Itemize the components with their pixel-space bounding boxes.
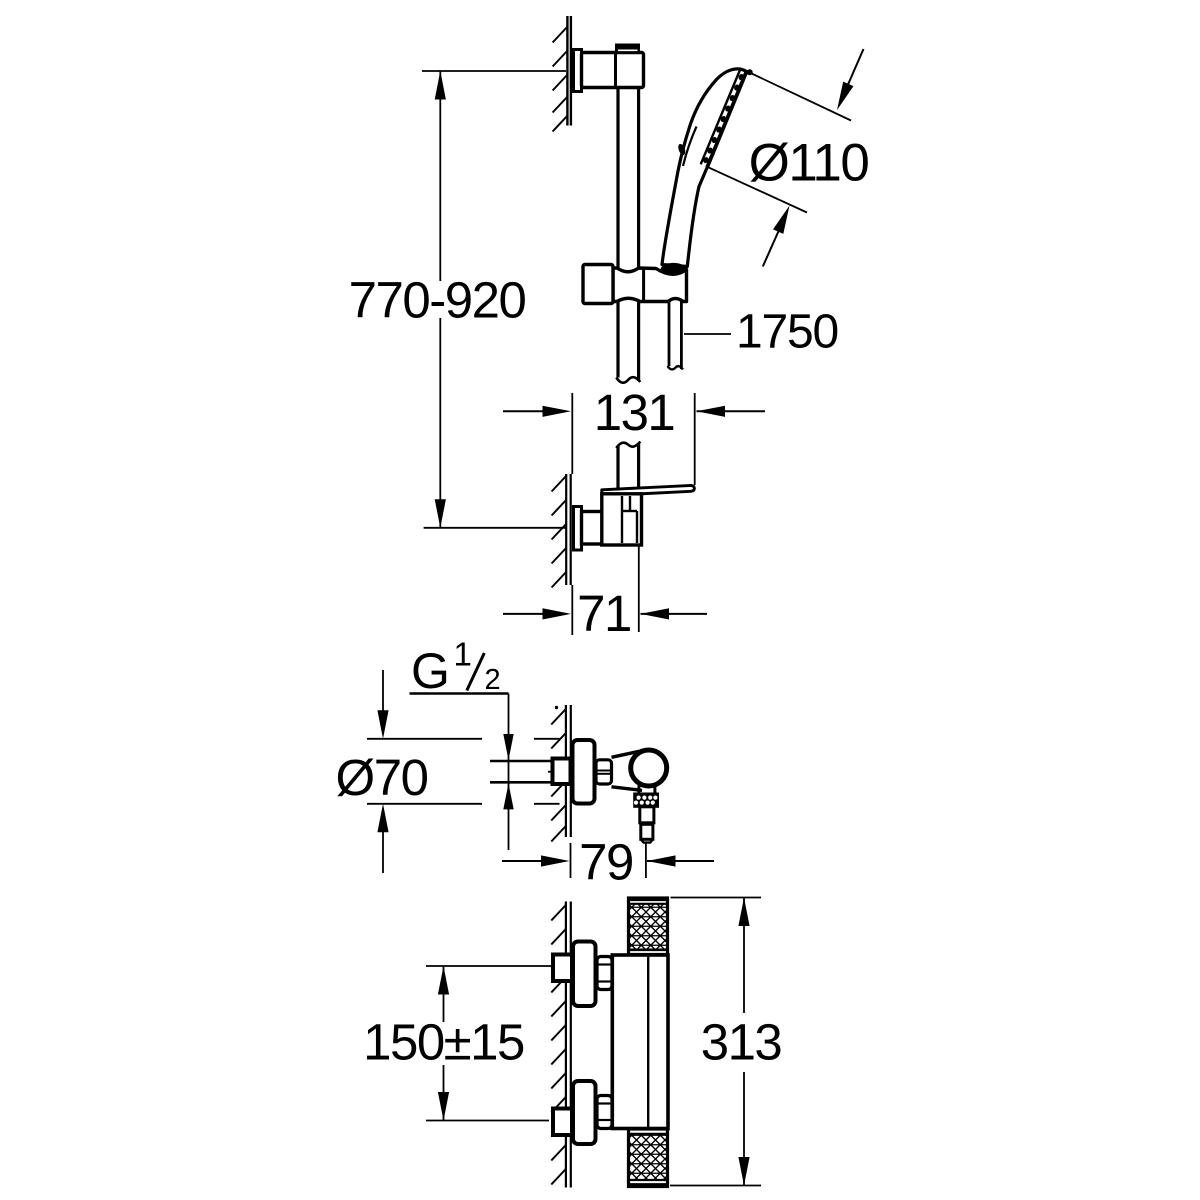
side sliver line of shower head xyxy=(683,127,697,167)
elbow ball xyxy=(631,750,667,786)
svg-text:770-920: 770-920 xyxy=(349,272,526,329)
rail foot bracket xyxy=(582,512,602,545)
label G 1/2 with leader xyxy=(410,636,514,851)
lower union nut xyxy=(597,1096,612,1129)
rail end cap xyxy=(615,44,640,54)
dimension extension line for Ø110 (lower) xyxy=(707,167,807,213)
upper square wall nut xyxy=(553,955,572,982)
hose nipple xyxy=(640,807,654,843)
mode button on shower head xyxy=(677,143,687,156)
elbow arm xyxy=(612,751,643,791)
shower holder body on rail xyxy=(613,268,687,302)
svg-text:Ø70: Ø70 xyxy=(336,749,428,806)
square thread nut at wall xyxy=(553,759,571,785)
dimension 150±15 xyxy=(363,966,552,1121)
svg-text:150±15: 150±15 xyxy=(363,1014,524,1071)
holder locking knob xyxy=(583,265,613,304)
thermostat body xyxy=(612,955,668,1129)
svg-text:71: 71 xyxy=(577,585,631,642)
union nut (middle) xyxy=(596,760,612,784)
dimension extension line for Ø110 (upper) xyxy=(751,73,852,121)
supply pipe G1/2 xyxy=(490,761,562,782)
shower hose xyxy=(668,302,683,370)
dimension 313 xyxy=(670,898,781,1186)
rail foot shelf arm xyxy=(602,485,695,495)
svg-text:G: G xyxy=(411,643,450,699)
lower knob (knurled) xyxy=(629,1129,668,1187)
svg-text:2: 2 xyxy=(485,664,501,696)
spray face (edge view) xyxy=(707,72,746,168)
hand shower head and handle xyxy=(662,69,753,267)
wall plate of rail foot xyxy=(574,507,582,551)
dimension Ø70 xyxy=(336,670,560,873)
upper escutcheon xyxy=(573,942,596,1007)
dimension 71 xyxy=(503,546,707,642)
svg-text:313: 313 xyxy=(701,1014,782,1071)
svg-text:1750: 1750 xyxy=(736,306,838,359)
Ø110 arrow upper xyxy=(837,49,864,110)
lower square wall nut xyxy=(553,1109,572,1136)
svg-text:Ø110: Ø110 xyxy=(749,134,869,193)
wall (middle drawing) xyxy=(551,705,571,842)
rail foot body xyxy=(602,494,642,545)
dimension 770-920 xyxy=(349,71,566,528)
svg-text:1: 1 xyxy=(454,636,472,673)
handle end in holder (dark) xyxy=(661,263,687,276)
shower rail (lower segment) xyxy=(616,442,640,490)
shower rail (upper segment) xyxy=(616,88,640,383)
Ø110 arrow lower xyxy=(763,206,790,267)
top rail bracket xyxy=(582,53,644,88)
svg-text:131: 131 xyxy=(594,384,675,441)
upper knob (knurled) xyxy=(629,898,668,955)
upper union nut xyxy=(597,957,612,990)
leader line 1750 xyxy=(684,333,731,335)
dimension 131 xyxy=(503,384,765,485)
hose connector neck xyxy=(639,786,655,794)
dimension 79 xyxy=(502,834,714,891)
lower escutcheon xyxy=(573,1081,596,1144)
wall plate of top rail bracket xyxy=(574,50,582,92)
wall (top drawing, at rail foot) xyxy=(552,474,571,588)
wall (bottom drawing) xyxy=(551,902,571,1188)
wall (top drawing) xyxy=(553,16,571,132)
escutcheon (middle) xyxy=(573,740,595,804)
knurled hose nut xyxy=(634,794,658,807)
svg-text:79: 79 xyxy=(579,834,633,891)
extension line top (770-920 upper) xyxy=(422,70,566,72)
